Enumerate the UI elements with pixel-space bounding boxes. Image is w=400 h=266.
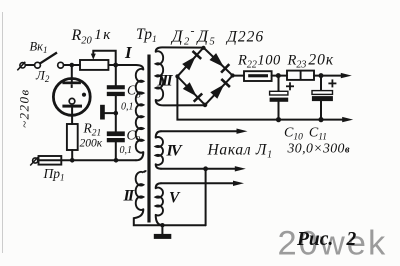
svg-text:30,0×300в: 30,0×300в: [287, 141, 350, 156]
svg-text:200к: 200к: [80, 138, 103, 150]
svg-text:~220в: ~220в: [17, 88, 32, 128]
svg-text:Рис.: Рис.: [296, 229, 333, 250]
svg-text:-: -: [191, 24, 195, 38]
svg-text:R22100: R22100: [237, 53, 281, 71]
svg-text:Пр1: Пр1: [43, 166, 65, 183]
svg-text:С8: С8: [127, 83, 141, 101]
svg-text:Л2: Л2: [35, 68, 50, 85]
svg-text:Тр1: Тр1: [136, 26, 157, 45]
svg-text:0,1: 0,1: [120, 145, 133, 156]
svg-text:Накал Л1: Накал Л1: [207, 142, 273, 161]
svg-text:0,1: 0,1: [121, 102, 134, 113]
svg-text:5: 5: [210, 37, 215, 48]
svg-text:R21: R21: [83, 121, 102, 139]
svg-text:Д: Д: [196, 27, 210, 46]
svg-text:II: II: [123, 188, 135, 205]
svg-text:III: III: [157, 73, 174, 90]
svg-text:Вк1: Вк1: [30, 40, 48, 56]
svg-text:2: 2: [346, 229, 357, 250]
svg-text:С9: С9: [127, 128, 141, 146]
svg-text:V: V: [169, 190, 181, 207]
svg-text:R201к: R201к: [71, 27, 112, 47]
svg-text:2: 2: [184, 37, 190, 48]
svg-text:I: I: [124, 43, 133, 62]
svg-text:R2320к: R2320к: [287, 52, 335, 71]
svg-text:IV: IV: [166, 143, 183, 160]
svg-text:Д: Д: [170, 27, 184, 46]
svg-text:Д226: Д226: [225, 29, 264, 46]
